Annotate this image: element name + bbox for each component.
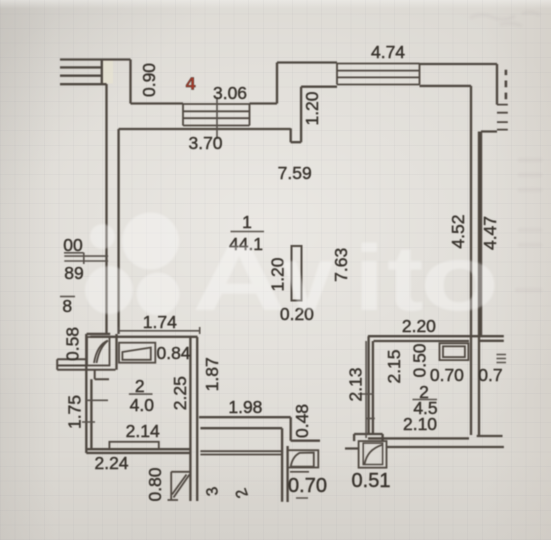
svg-text:o: o: [420, 226, 500, 330]
svg-text:v: v: [282, 226, 334, 330]
svg-text:A: A: [192, 226, 286, 330]
svg-text:t: t: [387, 226, 424, 330]
svg-text:i: i: [354, 226, 385, 330]
